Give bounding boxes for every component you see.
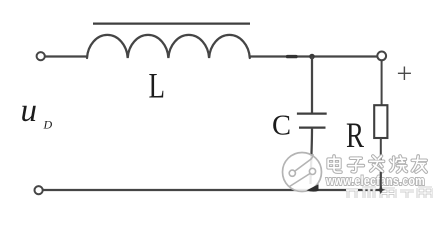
- terminal input bottom-left: [35, 186, 43, 194]
- terminal input top-left: [37, 52, 45, 60]
- svg-text:R: R: [346, 115, 365, 155]
- svg-text:L: L: [149, 66, 165, 105]
- terminal output top-right: [377, 52, 386, 61]
- inductor L winding: [87, 35, 250, 58]
- svg-text:D: D: [43, 118, 53, 132]
- svg-text:u: u: [21, 93, 38, 129]
- bottom wire: [43, 189, 381, 191]
- wire resistor bottom: [380, 138, 382, 190]
- inductor L core bar: [93, 22, 250, 24]
- capacitor-to-bottom junction arrow blob: [307, 184, 319, 191]
- wire inductor to output terminal: [250, 55, 378, 57]
- svg-text:C: C: [272, 111, 291, 142]
- wire capacitor top: [311, 57, 313, 114]
- capacitor C plates: [297, 112, 327, 114]
- svg-text:www.elecfans.com: www.elecfans.com: [325, 174, 425, 188]
- node junction top (capacitor tap): [309, 54, 315, 60]
- wire capacitor bottom: [311, 128, 313, 184]
- wire resistor bottom overlay (crosses watermark url): [380, 172, 382, 190]
- watermark logo circle: [283, 153, 322, 192]
- resistor R body: [374, 105, 387, 138]
- wire resistor top: [381, 60, 383, 105]
- wire smudge artifact: [288, 55, 297, 58]
- svg-text:+: +: [397, 59, 413, 90]
- resistor-to-bottom junction star: [376, 186, 386, 195]
- wire top-left to inductor: [45, 55, 88, 57]
